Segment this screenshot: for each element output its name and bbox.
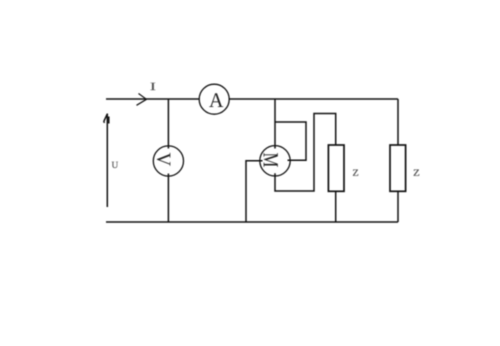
impedance Z2 bbox=[390, 145, 406, 191]
wire motor left lead bbox=[246, 161, 263, 222]
voltmeter letter V rotated bbox=[157, 153, 171, 166]
ammeter A circle bbox=[199, 84, 229, 114]
wire motor field loop bbox=[275, 122, 306, 160]
wire right branch top bbox=[397, 99, 399, 145]
wire voltmeter top branch bbox=[167, 99, 169, 149]
voltage arrowhead bbox=[104, 114, 109, 124]
voltage arrow U bbox=[106, 114, 108, 208]
wire top bus bbox=[106, 98, 398, 100]
impedance Z1 bbox=[328, 145, 344, 191]
wire motor bottom to Z1 bbox=[275, 114, 336, 192]
motor letter M rotated bbox=[264, 153, 278, 167]
wire Z2 bottom lead bbox=[397, 191, 399, 222]
label Z1 bbox=[353, 169, 358, 175]
label Z2 bbox=[414, 169, 420, 175]
wire bottom bus bbox=[106, 221, 398, 223]
label I bbox=[150, 83, 155, 90]
wire voltmeter bottom branch bbox=[167, 174, 169, 223]
current arrow I on top bus bbox=[137, 94, 147, 106]
ammeter letter A bbox=[209, 93, 223, 107]
voltmeter V circle bbox=[153, 146, 183, 176]
label U bbox=[112, 162, 118, 168]
wire Z1 bottom lead bbox=[335, 191, 337, 222]
motor M circle bbox=[260, 146, 290, 176]
wire motor top branch bbox=[274, 99, 276, 149]
